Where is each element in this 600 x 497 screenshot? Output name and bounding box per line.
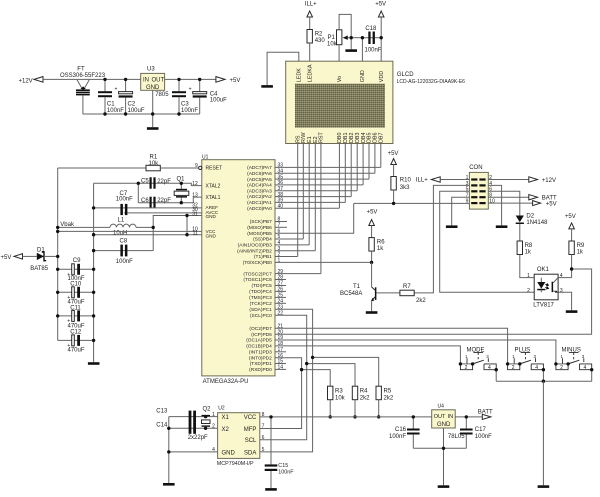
svg-text:(SCK)PB7: (SCK)PB7	[250, 219, 272, 225]
capacitor C11	[58, 305, 94, 329]
svg-text:2: 2	[560, 365, 563, 371]
wire FT to ground rail	[82, 95, 84, 114]
wire PB5 to CON pin9 riser	[275, 203, 354, 233]
resistor R4	[352, 386, 370, 418]
wire Vbak rail	[57, 168, 59, 340]
wire rail to ground	[542, 381, 544, 485]
svg-text:(RXD)PD0: (RXD)PD0	[249, 367, 272, 373]
svg-text:X2: X2	[222, 427, 230, 433]
GLCD top pin labels	[297, 64, 385, 82]
svg-text:C14: C14	[156, 423, 168, 429]
svg-text:BATT: BATT	[478, 410, 493, 416]
svg-text:RESET: RESET	[206, 166, 223, 172]
wire MFP branch to R3	[302, 370, 331, 387]
svg-text:(INT0)PD2: (INT0)PD2	[249, 355, 272, 361]
node BATT CON pin8	[529, 195, 557, 202]
svg-text:IN: IN	[143, 78, 149, 84]
svg-text:9: 9	[466, 199, 469, 205]
filter FT OSS306-55F223	[60, 67, 106, 96]
capacitor C9	[58, 258, 94, 282]
wire Vo GND VDD node	[362, 37, 381, 39]
wire PA3 to DB3	[275, 190, 357, 192]
svg-text:T1: T1	[353, 284, 361, 290]
wire PA1 to DB1	[275, 201, 345, 203]
svg-text:(ADC7)PA7: (ADC7)PA7	[247, 165, 272, 171]
svg-text:12: 12	[192, 181, 198, 187]
pin numbers U1 right	[278, 163, 284, 371]
svg-text:LEDKA: LEDKA	[307, 64, 313, 82]
svg-text:GND: GND	[437, 422, 451, 428]
wire pin31 branch to pin11	[186, 216, 188, 235]
wire U4 IN to BATT	[455, 416, 482, 418]
wire PD3 stub	[275, 351, 286, 353]
wire PA7 to DB7	[275, 166, 381, 168]
wire CON pin9 line	[354, 202, 470, 204]
wire PA2 to DB2	[275, 196, 351, 198]
svg-text:470uF: 470uF	[68, 348, 85, 354]
svg-text:GND: GND	[360, 70, 366, 82]
wire SCL branch to R4	[307, 364, 355, 387]
svg-text:+5V: +5V	[375, 1, 386, 7]
svg-text:GND: GND	[206, 234, 217, 239]
svg-text:7805: 7805	[155, 92, 169, 98]
svg-text:X1: X1	[222, 415, 230, 421]
svg-text:2: 2	[527, 288, 530, 294]
svg-text:(AIN1/OC0)PB3: (AIN1/OC0)PB3	[238, 243, 272, 249]
ground CON pin7	[446, 225, 458, 228]
switch PLUS	[506, 347, 545, 381]
svg-text:(OC1A)PD5: (OC1A)PD5	[246, 338, 272, 344]
svg-text:100nF: 100nF	[116, 197, 133, 203]
ground U4	[438, 485, 450, 488]
svg-text:+12V: +12V	[542, 178, 556, 184]
svg-text:(T1)PB1: (T1)PB1	[254, 254, 272, 260]
svg-text:9: 9	[195, 163, 198, 169]
capacitor C3	[172, 79, 198, 114]
wire switch common rail	[496, 380, 592, 382]
wire gnd rail	[93, 183, 95, 362]
wire PB3 to GLCD E1	[275, 244, 309, 246]
resistor R1	[58, 155, 199, 171]
wire PA0 to DB0	[275, 207, 339, 209]
crystal Q2	[202, 406, 212, 430]
wire PB6 stub	[275, 226, 287, 228]
wire CON pin4 to ground	[488, 185, 501, 225]
svg-text:DB7: DB7	[379, 133, 385, 144]
svg-text:100nF: 100nF	[181, 108, 198, 114]
node +5V CON pin10	[533, 201, 557, 208]
node ILL+ CON pin1	[416, 177, 440, 184]
wire CON pin1	[440, 179, 469, 181]
wire +12V rail to U3 IN	[43, 78, 141, 80]
ground left rail	[88, 362, 100, 365]
svg-text:1N4148: 1N4148	[526, 220, 548, 226]
svg-text:C8: C8	[120, 239, 128, 245]
svg-text:31: 31	[192, 211, 198, 217]
svg-text:(TOSC2)PC7: (TOSC2)PC7	[243, 271, 272, 277]
svg-text:C3: C3	[181, 102, 189, 108]
svg-text:IN: IN	[448, 414, 454, 420]
svg-text:(SS)PB4: (SS)PB4	[253, 237, 272, 243]
wire PA5 to DB5	[275, 178, 369, 180]
svg-text:100nF: 100nF	[116, 259, 133, 265]
node +5V R6	[367, 210, 378, 226]
wire PA6 to DB6	[275, 172, 375, 174]
svg-text:8: 8	[262, 412, 265, 418]
svg-text:U4: U4	[438, 404, 445, 410]
svg-text:R4: R4	[360, 388, 368, 394]
pin numbers U1 left	[192, 163, 198, 237]
capacitor C6	[138, 197, 181, 208]
wire PC7 to GLCD RST	[275, 273, 321, 275]
ground P1 wiper	[345, 49, 357, 52]
wire PA4 to DB4	[275, 184, 363, 186]
svg-text:FT: FT	[77, 67, 85, 73]
node +5V R10	[388, 151, 399, 165]
diode D2 1N4148	[516, 213, 548, 241]
pin 9 reset bubble	[199, 166, 202, 169]
diode D1 BAT85	[23, 247, 58, 271]
svg-text:LEDK: LEDK	[297, 68, 303, 82]
svg-text:Q2: Q2	[203, 406, 212, 412]
wire PB4 to GLCD R/W	[275, 238, 303, 240]
switch MINUS	[554, 347, 593, 381]
svg-text:+: +	[189, 87, 192, 93]
ground U2	[163, 483, 175, 486]
svg-text:OUT: OUT	[434, 414, 446, 420]
svg-text:100uF: 100uF	[128, 108, 145, 114]
wire PB2 to GLCD E2	[275, 250, 315, 252]
wire GND line pin11	[94, 234, 202, 236]
wire PD0 stub	[275, 368, 286, 370]
svg-text:U2: U2	[218, 405, 225, 411]
potentiometer P1	[327, 14, 362, 61]
wire OK1 pin3 to ground	[558, 292, 572, 310]
crystal Q1	[174, 177, 189, 203]
node +12V input	[19, 77, 44, 85]
node +12V CON pin2	[529, 177, 556, 184]
wire PD2 INT0 to U2 MFP	[260, 358, 302, 429]
svg-text:(INT1)PD3: (INT1)PD3	[249, 350, 272, 356]
capacitor C16	[389, 417, 420, 448]
svg-text:ILL+: ILL+	[416, 177, 428, 183]
svg-text:RST: RST	[319, 132, 325, 143]
wire U2 X2	[169, 427, 218, 429]
junction dots glcd top	[350, 36, 383, 39]
node +5V VDD	[375, 1, 386, 17]
resistor R9	[569, 229, 585, 278]
junction dots psu	[103, 78, 201, 116]
svg-text:(ADC6)PA6: (ADC6)PA6	[247, 171, 272, 177]
svg-text:4: 4	[560, 273, 563, 279]
capacitor C7	[94, 191, 202, 215]
wire U2 GND	[169, 451, 218, 453]
wire CON pin7 to ground	[452, 197, 470, 225]
svg-text:(ICP)PD6: (ICP)PD6	[251, 332, 272, 338]
wire PC2 stub	[275, 302, 286, 304]
node +5V to D1	[1, 254, 23, 262]
svg-text:(SCL)PC0: (SCL)PC0	[250, 313, 272, 319]
svg-text:+5V: +5V	[230, 78, 241, 84]
wire PC6 stub	[275, 279, 286, 281]
svg-text:(ADC2)PA2: (ADC2)PA2	[247, 194, 272, 200]
svg-text:R1: R1	[150, 155, 158, 161]
svg-text:BAT85: BAT85	[30, 266, 49, 272]
svg-text:D2: D2	[526, 213, 534, 219]
ground CON pin4	[496, 225, 508, 228]
wire PC5 stub	[275, 285, 286, 287]
capacitor C8	[94, 239, 154, 266]
GLCD dot matrix	[295, 85, 384, 127]
resistor R7	[376, 284, 426, 304]
MCU U1 ATMEGA32A-PU	[202, 155, 275, 386]
svg-text:E1: E1	[307, 136, 313, 143]
ground LEDK	[261, 85, 273, 88]
connector CON	[469, 165, 488, 209]
svg-text:XTAL1: XTAL1	[206, 195, 221, 201]
resistor R3	[328, 386, 346, 418]
svg-text:+5V: +5V	[546, 202, 557, 208]
svg-text:(ADC0)PA0: (ADC0)PA0	[247, 206, 272, 212]
svg-text:GLCD: GLCD	[397, 72, 414, 78]
svg-text:+: +	[115, 87, 118, 93]
svg-text:78L05: 78L05	[448, 434, 465, 440]
svg-text:(MOSI)PB5: (MOSI)PB5	[247, 231, 272, 237]
wire CON pin3 to R7	[414, 185, 469, 293]
svg-text:C1: C1	[107, 102, 115, 108]
svg-text:2x22pF: 2x22pF	[188, 435, 208, 441]
svg-text:MFP: MFP	[244, 427, 257, 433]
svg-text:+12V: +12V	[19, 78, 33, 84]
svg-text:(OC1B)PD4: (OC1B)PD4	[246, 344, 272, 350]
svg-text:R8: R8	[525, 243, 533, 249]
wire P1 wiper to ground	[350, 38, 352, 50]
capacitor C5	[94, 177, 182, 188]
svg-text:C9: C9	[73, 258, 81, 264]
svg-text:10k: 10k	[335, 395, 346, 401]
svg-text:C17: C17	[475, 427, 487, 433]
wire CON pin6 to D2	[488, 191, 520, 215]
svg-text:2k2: 2k2	[384, 395, 394, 401]
svg-text:22pF: 22pF	[157, 179, 171, 185]
svg-text:2: 2	[512, 365, 515, 371]
resistor R8	[517, 241, 534, 278]
svg-text:100nF: 100nF	[107, 108, 124, 114]
switch MODE	[459, 347, 498, 381]
wire SDA PC1 to U2	[260, 309, 313, 452]
resistor R5	[376, 386, 394, 418]
node BATT U4	[478, 410, 493, 420]
svg-text:7: 7	[262, 424, 265, 430]
ground C15	[265, 488, 277, 491]
node ILL+ top	[305, 1, 317, 17]
svg-text:100nF: 100nF	[475, 434, 492, 440]
svg-text:100nF: 100nF	[365, 48, 382, 54]
svg-text:C6: C6	[141, 198, 149, 204]
svg-text:(TDI)PC5: (TDI)PC5	[252, 283, 273, 289]
wire CON pin2	[488, 179, 529, 181]
svg-text:13: 13	[192, 192, 198, 198]
capacitor C14	[156, 411, 208, 441]
capacitor C12	[58, 330, 94, 354]
node +5V output	[216, 77, 240, 84]
capacitor C2	[115, 79, 145, 114]
svg-text:+5V: +5V	[565, 214, 576, 220]
svg-text:OK1: OK1	[537, 267, 550, 273]
svg-text:1: 1	[527, 273, 530, 279]
svg-text:P1: P1	[328, 35, 336, 41]
svg-text:SDA: SDA	[244, 450, 256, 456]
svg-text:C4: C4	[210, 91, 218, 97]
wire CON pin5 to OK1 pin2	[440, 191, 535, 292]
svg-text:22pF: 22pF	[157, 198, 171, 204]
wire psu bottom rail	[83, 113, 200, 115]
svg-text:+5V: +5V	[388, 151, 399, 157]
wire PD1 stub	[275, 363, 286, 365]
ground OK1	[566, 310, 578, 313]
svg-text:C15: C15	[278, 463, 288, 469]
svg-text:C5: C5	[141, 179, 149, 185]
svg-text:+5V: +5V	[1, 255, 12, 261]
svg-text:ILL+: ILL+	[305, 1, 317, 7]
capacitor C1	[98, 79, 124, 114]
svg-text:1k: 1k	[577, 250, 584, 256]
optocoupler OK1 LTV817	[527, 267, 563, 308]
svg-text:(TMS)PC3: (TMS)PC3	[249, 295, 272, 301]
wire C5 to XTAL2 pin 12	[181, 183, 202, 185]
svg-text:R3: R3	[335, 388, 343, 394]
svg-text:MCP7940M-I/P: MCP7940M-I/P	[217, 461, 254, 467]
wire CON pin8	[488, 196, 529, 198]
resistor R2	[307, 17, 325, 61]
svg-text:GND: GND	[146, 85, 160, 91]
node +5V R9	[565, 214, 576, 229]
junction dots mcu nets	[300, 356, 314, 372]
svg-text:VCC: VCC	[244, 415, 257, 421]
wire PD7 to PLUS switch	[275, 328, 508, 364]
GLCD LCD-AG-122032G display	[286, 61, 465, 143]
wire backup 5V rail	[260, 416, 432, 418]
transistor T1 BC548A	[340, 262, 376, 311]
svg-text:VDD: VDD	[379, 71, 385, 82]
svg-text:BC548A: BC548A	[340, 291, 362, 297]
svg-text:GND: GND	[222, 450, 236, 456]
svg-text:(TOSC1)PC6: (TOSC1)PC6	[243, 277, 272, 283]
regulator U4 78L05	[432, 404, 466, 441]
svg-text:(ADC5)PA5: (ADC5)PA5	[247, 177, 272, 183]
wire C5 C6 left link	[137, 183, 139, 202]
resistor R10	[391, 165, 412, 204]
svg-text:(ADC4)PA4: (ADC4)PA4	[247, 183, 272, 189]
wire PB0 to R6 T1 node	[275, 261, 372, 263]
pin numbers U2	[212, 412, 264, 453]
wire C6 to XTAL1 pin 13	[181, 197, 202, 203]
svg-text:2: 2	[465, 365, 468, 371]
regulator U3 7805	[141, 67, 170, 99]
svg-text:(TDO)PC4: (TDO)PC4	[249, 289, 272, 295]
wire C16 C17 bottom link	[413, 447, 466, 449]
capacitor C17	[460, 417, 492, 448]
svg-text:3: 3	[560, 288, 563, 294]
svg-text:C18: C18	[365, 26, 377, 32]
ground psu	[147, 127, 159, 130]
svg-text:R6: R6	[377, 240, 385, 246]
wire U4 GND	[443, 428, 445, 485]
svg-text:1k: 1k	[525, 250, 532, 256]
wire U3 GND to ground	[152, 90, 154, 127]
svg-text:R9: R9	[577, 243, 585, 249]
svg-text:430: 430	[315, 38, 326, 44]
svg-text:U3: U3	[147, 67, 155, 73]
svg-text:GND: GND	[206, 214, 217, 219]
svg-text:R5: R5	[384, 388, 392, 394]
wire VCC line pin10	[58, 230, 202, 232]
svg-text:1k: 1k	[377, 246, 384, 252]
svg-text:LTV817: LTV817	[533, 302, 554, 308]
svg-text:R10: R10	[400, 178, 412, 184]
svg-text:(ADC3)PA3: (ADC3)PA3	[247, 188, 272, 194]
svg-text:ATMEGA32A-PU: ATMEGA32A-PU	[203, 379, 249, 385]
svg-text:11: 11	[193, 231, 198, 237]
svg-text:CON: CON	[469, 165, 482, 171]
svg-text:OSS306-55F223: OSS306-55F223	[60, 73, 106, 79]
svg-text:4: 4	[488, 365, 491, 371]
svg-text:(ADC1)PA1: (ADC1)PA1	[247, 200, 272, 206]
svg-text:100nF: 100nF	[389, 434, 406, 440]
capacitor C13	[156, 409, 191, 434]
resistor R6	[369, 226, 385, 263]
svg-text:2k2: 2k2	[416, 298, 426, 304]
svg-text:R2: R2	[315, 32, 323, 38]
wire PD5 to MINUS switch	[275, 340, 556, 364]
wire C13 C14 left leg	[168, 417, 170, 483]
wire SCL PC0 to U2	[260, 315, 307, 440]
capacitor C4	[189, 79, 228, 114]
ground T1	[366, 311, 378, 314]
wire SDA branch to R5	[313, 357, 379, 386]
pin numbers CON	[466, 175, 495, 205]
wire PC3 stub	[275, 296, 286, 298]
svg-text:2k2: 2k2	[360, 395, 370, 401]
svg-text:5: 5	[262, 447, 265, 453]
svg-text:4: 4	[535, 365, 538, 371]
svg-text:SCL: SCL	[245, 438, 257, 444]
capacitor C15	[265, 417, 295, 488]
junction dots left	[56, 182, 189, 342]
svg-text:Vo: Vo	[337, 76, 343, 82]
capacitor C10	[58, 281, 94, 305]
svg-text:(SDA)PC1: (SDA)PC1	[249, 307, 272, 313]
svg-text:OUT: OUT	[152, 78, 165, 84]
svg-text:(OC2)PD7: (OC2)PD7	[249, 326, 272, 332]
svg-text:(TCK)PC2: (TCK)PC2	[250, 301, 272, 307]
svg-text:XTAL2: XTAL2	[206, 183, 221, 189]
wire VDD vertical	[380, 17, 382, 61]
capacitor C18	[365, 26, 382, 54]
wire PD6 to OK1 output	[275, 269, 592, 334]
svg-text:100nF: 100nF	[278, 470, 294, 476]
svg-text:(T0/XCK)PB0: (T0/XCK)PB0	[243, 260, 272, 266]
wire U2 X1	[169, 416, 218, 418]
svg-text:R7: R7	[403, 284, 411, 290]
svg-text:C2: C2	[128, 102, 136, 108]
wire AVCC node to GND pin31	[153, 216, 202, 251]
svg-text:6: 6	[262, 435, 265, 441]
ground switches	[538, 485, 550, 488]
wire PD4 to MODE switch	[275, 346, 460, 364]
svg-text:L1: L1	[118, 217, 125, 223]
wire OK1 pin4	[558, 277, 572, 279]
